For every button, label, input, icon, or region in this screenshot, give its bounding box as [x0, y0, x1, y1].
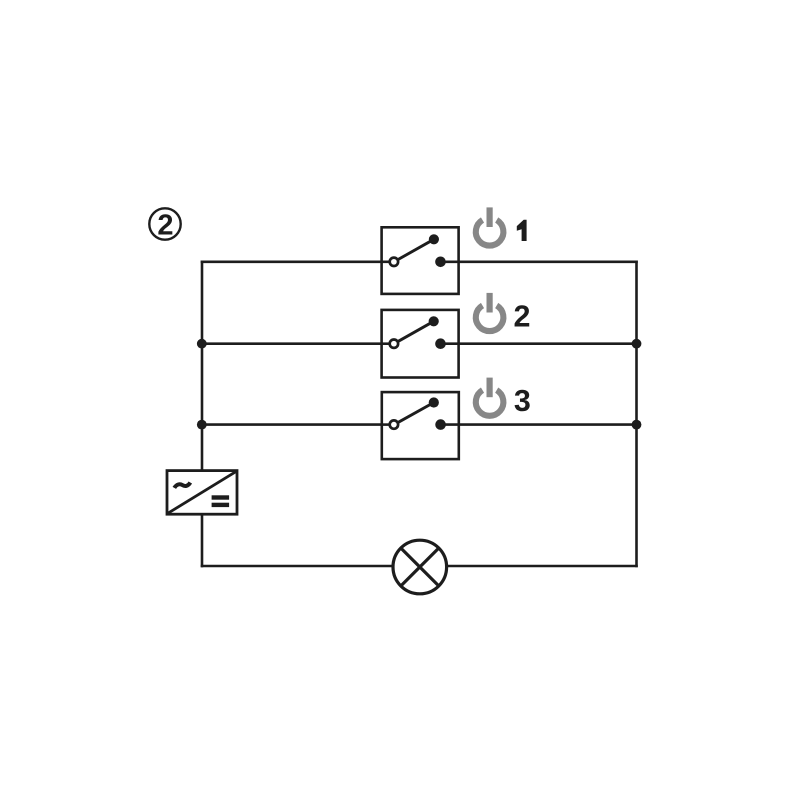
switch S2 (box with open contact) [382, 310, 459, 378]
lamp E1 (circle with X) [393, 540, 447, 594]
wire right rail (vertical) [635, 261, 638, 568]
junction dot right rail / S2 wire [632, 339, 642, 349]
svg-text:3: 3 [514, 384, 531, 418]
power icon 3 (standby symbol) [476, 378, 504, 416]
wire left rail (vertical) [201, 261, 204, 472]
power icon 2 (standby symbol) [476, 293, 504, 331]
wire lamp to right rail [447, 565, 638, 568]
wire middle-left segment (left rail to switch S2) [201, 342, 390, 345]
junction dot left rail / S2 wire [197, 339, 207, 349]
wire bottom horizontal (converter to lamp) [201, 565, 393, 568]
wire bottom-left segment (left rail to switch S3) [201, 423, 390, 426]
label 1 [517, 220, 527, 241]
switch S3 (box with open contact) [382, 392, 459, 459]
junction dot left rail / S3 wire [197, 420, 207, 430]
svg-text:2: 2 [514, 299, 531, 333]
svg-text:2: 2 [157, 210, 173, 242]
label 2 (circled figure number) [149, 208, 180, 241]
wire S3 output to right rail [440, 423, 638, 426]
switch S1 (box with open contact) [382, 227, 459, 294]
converter U1 (AC/DC converter box) [167, 471, 237, 515]
junction dot right rail / S3 wire [632, 420, 642, 430]
wire S2 output to right rail [440, 342, 638, 345]
power icon 1 (standby symbol) [476, 207, 504, 245]
wire S1 output to right rail [440, 260, 638, 263]
wire top-left segment (left rail to switch S1) [201, 260, 390, 263]
wire converter output (vertical) [201, 513, 204, 567]
